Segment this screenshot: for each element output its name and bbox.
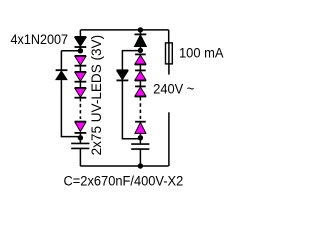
wire left branch horizontal — [61, 50, 80, 52]
capacitor C2 670nF — [131, 138, 149, 166]
LED L3 UV (down) — [75, 88, 87, 102]
diode D1 rectifier 1N2007 (down) — [75, 37, 87, 51]
wire left branch vertical upper — [60, 51, 62, 70]
diode D2 rectifier 1N2007 (up) — [56, 70, 68, 79]
LED L1 UV (down) — [75, 56, 87, 72]
LED M4 UV (up) — [135, 122, 146, 138]
diode D4 rectifier 1N2007 (up) — [135, 30, 147, 51]
wire bottom rail — [80, 165, 168, 167]
LED L4 UV (down) — [75, 122, 87, 138]
LED M3 UV (up) — [135, 86, 146, 100]
node junction dot D — [138, 135, 143, 140]
wire left column top stub — [79, 30, 81, 37]
node junction dot A — [78, 48, 83, 53]
LED M2 UV (up) — [135, 70, 146, 86]
wire right branch upper — [122, 51, 140, 71]
wire dashed continuation left chain — [79, 104, 81, 119]
node junction dot B — [78, 135, 83, 140]
diode D3 rectifier 1N2007 (down) — [117, 70, 129, 80]
wire left branch vertical lower — [61, 80, 80, 137]
svg-text:4x1N2007: 4x1N2007 — [11, 32, 69, 47]
wire dashed continuation right chain — [139, 103, 141, 119]
svg-text:C=2x670nF/400V-X2: C=2x670nF/400V-X2 — [64, 174, 184, 189]
svg-text:2x75 UV-LEDS (3V): 2x75 UV-LEDS (3V) — [89, 35, 104, 156]
wire top rail — [80, 29, 168, 31]
svg-text:240V ~: 240V ~ — [153, 82, 194, 97]
fuse F1 with wire — [166, 30, 173, 75]
svg-text:100 mA: 100 mA — [179, 46, 224, 61]
capacitor C1 670nF — [71, 138, 89, 166]
node junction dot C — [138, 163, 143, 168]
LED L2 UV (down) — [75, 72, 87, 88]
node junction dot E — [138, 48, 143, 53]
wire 240V lower stub — [168, 112, 170, 166]
node junction dot F on top rail — [138, 27, 143, 32]
LED M1 UV (up) — [135, 54, 146, 70]
wire right branch lower — [122, 81, 140, 139]
